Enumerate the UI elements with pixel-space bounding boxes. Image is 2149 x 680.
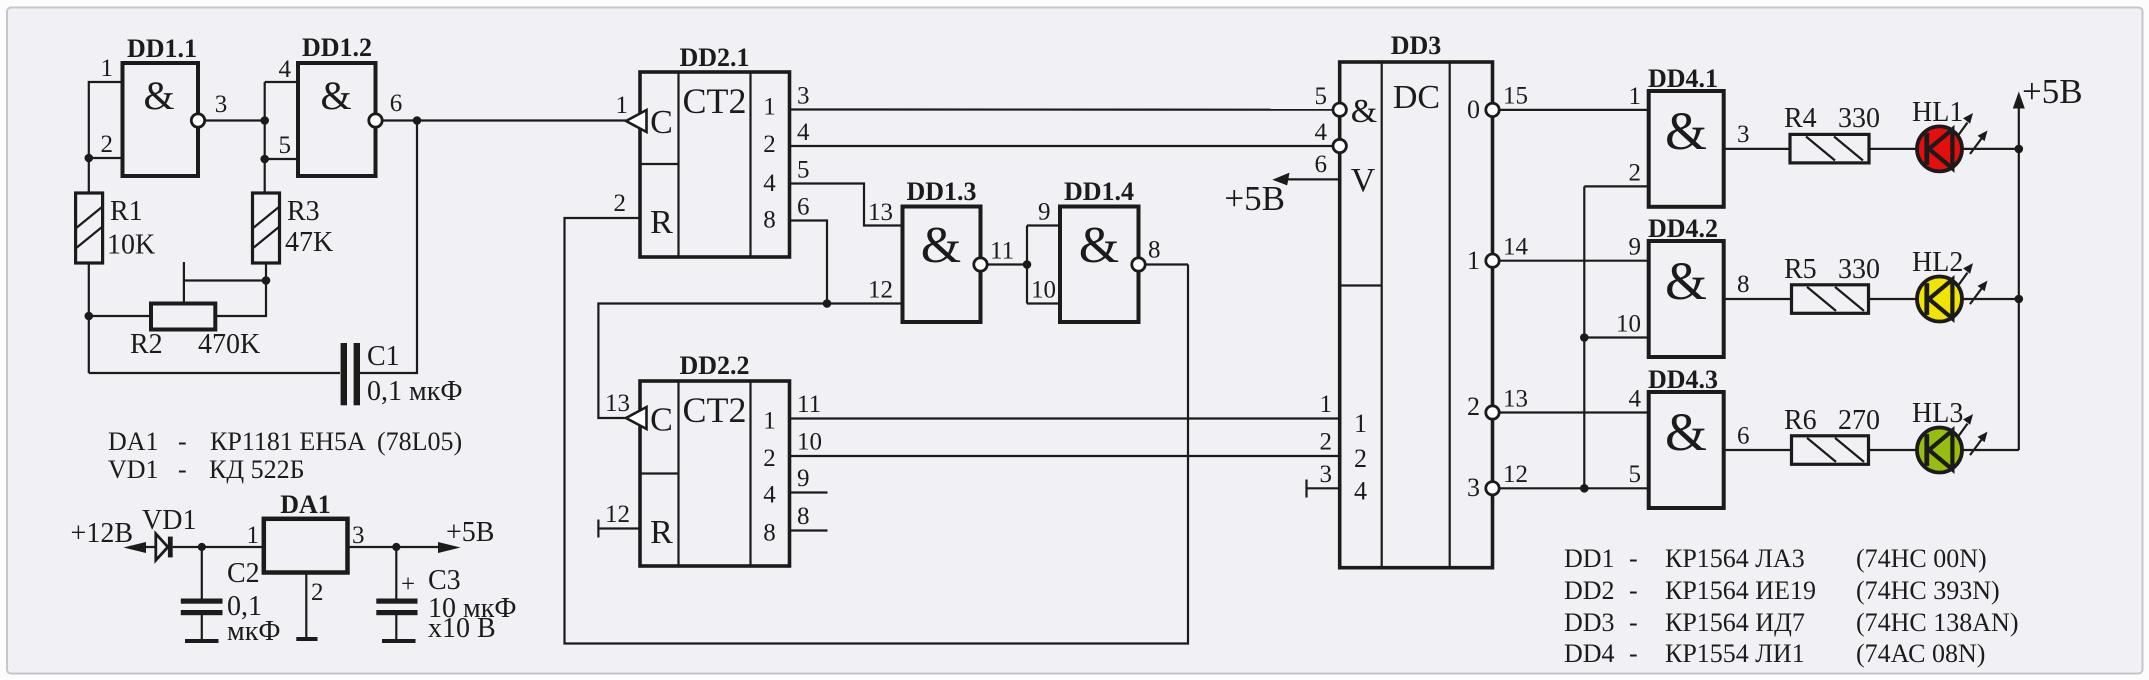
LED HL1: [1917, 126, 1962, 171]
svg-text:4: 4: [797, 119, 810, 146]
input bubble DD3 pin 5: [1333, 103, 1346, 116]
clock edge triangle DD2.2 pin 13: [626, 407, 647, 429]
+12V arrowhead: [124, 542, 147, 553]
node C2 tap: [198, 543, 206, 551]
gate DD1.4: [1060, 177, 1139, 322]
R input stub DD2.2 pin 12: [598, 527, 640, 529]
svg-text:4: 4: [1629, 386, 1642, 413]
wire DD2.1 out6 down: [790, 221, 828, 304]
wire out13 to DD4.3 pin4: [1499, 411, 1649, 413]
node HL2 to rail: [2015, 295, 2024, 304]
svg-text:2: 2: [614, 190, 627, 217]
capacitor C1: [341, 343, 360, 405]
svg-text:0: 0: [1467, 95, 1480, 124]
wire out 8 to feedback: [1145, 263, 1188, 265]
svg-text:DD3: DD3: [1391, 31, 1442, 60]
wire pin1 DD1.1: [89, 82, 123, 193]
resistor R6: [1792, 436, 1869, 465]
svg-text:DD1.4: DD1.4: [1064, 177, 1134, 206]
svg-text:5: 5: [279, 132, 292, 159]
svg-text:1: 1: [1629, 83, 1642, 110]
regulator DA1: [264, 490, 348, 573]
svg-text:1: 1: [1467, 246, 1480, 275]
svg-text:9: 9: [1038, 199, 1051, 226]
wire output 3: [204, 119, 264, 121]
wire DD4.3 out6: [1724, 449, 1792, 451]
svg-text:R3: R3: [287, 196, 320, 227]
wire input riser DD1.2: [264, 82, 266, 193]
svg-text:4: 4: [763, 482, 776, 509]
svg-text:0,1 мкФ: 0,1 мкФ: [367, 376, 462, 407]
svg-text:DD4.3: DD4.3: [1648, 365, 1718, 394]
pin 2 terminal bar: [296, 637, 317, 641]
svg-text:V: V: [1351, 162, 1376, 199]
svg-text:1: 1: [763, 94, 776, 121]
wire pin2 DD1.1: [89, 157, 123, 159]
svg-text:C2: C2: [227, 558, 260, 589]
svg-text:2: 2: [1629, 160, 1642, 187]
svg-text:2: 2: [1320, 429, 1333, 456]
svg-text:&: &: [1665, 402, 1707, 462]
bus DD4 second inputs: [1583, 186, 1585, 488]
counter DD2.2: [640, 351, 790, 566]
wire R6 to HL3 to rail: [1869, 449, 2019, 451]
svg-text:11: 11: [797, 391, 821, 418]
wire DD2.2 out11 to DD3 in1: [790, 417, 1340, 419]
svg-text:5: 5: [1629, 461, 1642, 488]
wire R5 to HL2 to rail: [1869, 298, 2019, 300]
node HL1 to rail: [2015, 145, 2024, 154]
svg-text:5: 5: [1315, 83, 1328, 110]
svg-text:6: 6: [1737, 423, 1750, 450]
node C1 top connection: [413, 116, 422, 125]
output bubble DD1.1 pin 3: [191, 114, 204, 127]
svg-text:6: 6: [797, 194, 810, 221]
node wiper to R3 branch: [262, 276, 271, 285]
svg-text:9: 9: [1629, 234, 1642, 261]
capacitor C2: [181, 599, 223, 616]
capacitor C3: [376, 599, 417, 616]
C2 terminal bar: [185, 639, 219, 643]
input bubble DD3 pin 4: [1333, 139, 1346, 152]
stub DD3 pin 3: [1307, 487, 1340, 489]
wire DA1 pin3 out: [348, 546, 450, 548]
svg-text:мкФ: мкФ: [227, 616, 280, 647]
svg-text:2: 2: [763, 445, 776, 472]
svg-text:VD1: VD1: [142, 505, 196, 536]
svg-text:8: 8: [763, 520, 776, 547]
svg-text:DD2.2: DD2.2: [679, 351, 749, 380]
resistor R3: [253, 193, 280, 263]
node bus to pin12 wire: [1580, 484, 1589, 493]
gate DD1.2: [298, 33, 376, 176]
svg-text:13: 13: [605, 390, 630, 417]
svg-text:6: 6: [390, 90, 403, 117]
output bubble DD1.2 pin 6: [369, 114, 382, 127]
wire R2 left: [89, 315, 151, 317]
svg-text:3: 3: [1467, 473, 1480, 502]
svg-text:&: &: [320, 73, 351, 118]
svg-text:8: 8: [797, 503, 810, 530]
svg-text:&: &: [921, 217, 961, 274]
svg-text:12: 12: [868, 277, 893, 304]
node bus to pin10: [1580, 333, 1589, 342]
wire pin10 DD1.4: [1027, 302, 1060, 304]
wire DA1 pin2 ground stub: [305, 573, 307, 640]
pin 12 terminal tick: [597, 520, 599, 538]
wire output 6 to clock: [382, 119, 626, 121]
output bubble DD3 pin 12: [1486, 482, 1499, 495]
wire bottom rail to C1: [89, 372, 340, 374]
svg-text:DD1.2: DD1.2: [302, 33, 372, 62]
potentiometer R2: [151, 304, 215, 330]
output bubble DD1.4 pin 8: [1132, 258, 1145, 271]
wire out14 to DD4.2 pin9: [1499, 260, 1649, 262]
wire riser DD1.4 inputs: [1026, 226, 1028, 304]
svg-text:4: 4: [763, 170, 776, 197]
svg-text:1: 1: [1320, 391, 1333, 418]
decoder DD3: [1340, 31, 1493, 568]
svg-text:4: 4: [1354, 477, 1367, 506]
wire DD4.2 pin10: [1584, 336, 1648, 338]
svg-text:R1: R1: [110, 196, 143, 227]
svg-text:10: 10: [797, 429, 822, 456]
svg-text:DD4.2: DD4.2: [1648, 214, 1718, 243]
svg-text:14: 14: [1503, 234, 1529, 261]
wire R3 bottom to R2 right: [215, 263, 266, 316]
svg-text:+12В: +12В: [71, 518, 133, 549]
stub DD2.2 out9: [790, 491, 828, 493]
wire out12 to DD4.3 pin5: [1499, 487, 1649, 489]
+5V output arrowhead: [438, 542, 461, 553]
svg-text:HL3: HL3: [1912, 398, 1963, 429]
HL3 emission arrows: [1957, 414, 1988, 455]
wire bus out6 to DD1.3 pin12 and DD2.2 clock: [598, 304, 902, 419]
svg-text:10: 10: [1031, 277, 1056, 304]
svg-text:&: &: [1665, 101, 1707, 161]
clock edge triangle DD2.1 pin 1: [626, 110, 647, 132]
wire diode to DA1 pin1: [173, 546, 264, 548]
node DD1.4 inputs: [1023, 260, 1032, 269]
svg-text:2: 2: [1467, 392, 1480, 421]
wire R1 bottom: [88, 263, 90, 373]
R2 wiper arm: [183, 262, 185, 304]
node out6 junction: [823, 299, 832, 308]
svg-text:12: 12: [1503, 461, 1528, 488]
svg-text:DC: DC: [1393, 79, 1440, 116]
svg-text:х10 В: х10 В: [428, 613, 496, 644]
node pin5: [260, 155, 269, 164]
svg-text:4: 4: [279, 56, 292, 83]
svg-text:DD1.1: DD1.1: [127, 34, 197, 63]
svg-text:15: 15: [1503, 83, 1528, 110]
svg-text:DD4.1: DD4.1: [1648, 64, 1718, 93]
wire R input DD2.1 pin 2 feedback: [565, 218, 1189, 644]
svg-text:1: 1: [247, 522, 260, 549]
gate DD4.1: [1648, 64, 1724, 207]
wire DD3 pin 6 enable: [1285, 178, 1340, 180]
wire R4 to HL1 to rail: [1869, 148, 2019, 150]
resistor R4: [1790, 134, 1869, 163]
wire out15 to DD4.1 pin1: [1499, 109, 1649, 111]
svg-text:8: 8: [1737, 271, 1750, 298]
svg-text:R: R: [650, 514, 673, 551]
wire C2 bottom: [201, 615, 203, 639]
node at DD1.2 input: [260, 116, 269, 125]
svg-text:2: 2: [101, 131, 114, 158]
svg-text:DD3-КР1564 ИД7(74НС 138АN): DD3-КР1564 ИД7(74НС 138АN): [1564, 608, 2019, 637]
svg-text:+5В: +5В: [1224, 179, 1285, 218]
svg-text:8: 8: [1148, 237, 1161, 264]
svg-text:DD2.1: DD2.1: [679, 43, 749, 72]
svg-text:11: 11: [990, 238, 1014, 265]
svg-text:13: 13: [1503, 386, 1528, 413]
svg-text:+5В: +5В: [2022, 72, 2083, 111]
svg-text:&: &: [143, 73, 174, 118]
wire DD2.1 out5 to DD1.3 pin13: [790, 184, 903, 226]
svg-text:2: 2: [1354, 444, 1367, 473]
output bubble DD3 pin 15: [1486, 103, 1499, 116]
svg-text:5: 5: [797, 157, 810, 184]
svg-text:R: R: [650, 204, 673, 241]
counter DD2.1: [640, 43, 790, 257]
svg-text:+5В: +5В: [446, 517, 494, 548]
svg-text:&: &: [1079, 217, 1119, 274]
gate DD1.3: [903, 177, 981, 322]
+5V rail arrowhead: [2013, 92, 2025, 109]
output bubble DD3 pin 13: [1486, 406, 1499, 419]
HL1 emission arrows: [1957, 113, 1988, 154]
wire C3: [395, 547, 397, 599]
node junction pins 1-2: [85, 154, 94, 163]
svg-text:CT2: CT2: [682, 81, 746, 121]
svg-text:1: 1: [616, 92, 629, 119]
wire DD2.1 out4 to DD3 in4: [790, 145, 1334, 147]
wire DD4.1 out3: [1724, 148, 1790, 150]
svg-text:10: 10: [1616, 311, 1641, 338]
svg-text:47K: 47K: [285, 227, 333, 258]
+5V rail: [2018, 104, 2020, 450]
svg-text:1: 1: [1354, 409, 1367, 438]
svg-text:CT2: CT2: [682, 390, 746, 430]
output bubble DD3 pin 14: [1486, 254, 1499, 267]
wire C2: [201, 547, 203, 599]
wire DD2.2 out10 to DD3 in2: [790, 455, 1340, 457]
node R2 left: [85, 312, 94, 321]
gate DD1.1: [123, 34, 199, 176]
svg-text:3: 3: [797, 83, 810, 110]
svg-text:DD1.3: DD1.3: [906, 177, 976, 206]
svg-text:C1: C1: [367, 341, 400, 372]
wire C3 bottom: [395, 615, 397, 639]
svg-text:6: 6: [1315, 151, 1328, 178]
svg-text:2: 2: [763, 131, 776, 158]
wire DD2.1 out3 to DD3 in5: [790, 108, 1334, 110]
wire DD4.1 pin2: [1584, 185, 1648, 187]
svg-text:12: 12: [605, 501, 630, 528]
svg-text:3: 3: [1320, 461, 1333, 488]
wire +12V to diode: [130, 546, 156, 548]
pin 3 terminal tick: [1305, 480, 1307, 498]
svg-text:4: 4: [1315, 119, 1328, 146]
wire out 11: [987, 263, 1027, 265]
svg-text:9: 9: [797, 465, 810, 492]
HL2 emission arrows: [1957, 263, 1988, 304]
node C3 tap: [392, 543, 400, 551]
svg-text:C3: C3: [428, 565, 461, 596]
stub DD2.2 out8: [790, 529, 828, 531]
R2 wiper tap wire: [184, 279, 266, 281]
arrowhead +5V to pin 6: [1272, 173, 1289, 186]
svg-text:C: C: [650, 104, 673, 141]
svg-text:8: 8: [763, 207, 776, 234]
output bubble DD1.3 pin 11: [974, 258, 987, 271]
svg-text:3: 3: [215, 91, 228, 118]
svg-text:3: 3: [1737, 121, 1750, 148]
gate DD4.3: [1648, 365, 1724, 508]
svg-text:&: &: [1665, 251, 1707, 311]
svg-text:HL1: HL1: [1912, 97, 1963, 128]
svg-text:3: 3: [352, 522, 365, 549]
svg-text:13: 13: [868, 199, 893, 226]
wire pin4 DD1.2: [265, 81, 298, 83]
svg-text:&: &: [1351, 93, 1377, 130]
wire pin5 DD1.2: [265, 158, 298, 160]
LED HL3: [1917, 428, 1962, 473]
gate DD4.2: [1648, 214, 1724, 357]
svg-text:1: 1: [101, 55, 114, 82]
svg-text:DD2-КР1564 ИЕ19(74НС 393N): DD2-КР1564 ИЕ19(74НС 393N): [1564, 576, 2000, 605]
wire DD4.2 out8: [1724, 298, 1792, 300]
svg-text:C: C: [650, 402, 673, 439]
svg-text:2: 2: [311, 579, 324, 606]
svg-text:10K: 10K: [107, 230, 155, 261]
resistor R5: [1792, 285, 1869, 314]
svg-text:+: +: [401, 571, 415, 598]
wire C1 right to clock node: [360, 121, 417, 374]
LED HL2: [1917, 277, 1962, 322]
diode VD1: [156, 534, 173, 561]
resistor R1: [76, 193, 103, 263]
svg-text:HL2: HL2: [1912, 247, 1963, 278]
wire pin9 DD1.4: [1027, 224, 1060, 226]
C3 terminal bar: [382, 639, 416, 643]
svg-text:DA1: DA1: [280, 490, 331, 519]
svg-text:1: 1: [763, 408, 776, 435]
